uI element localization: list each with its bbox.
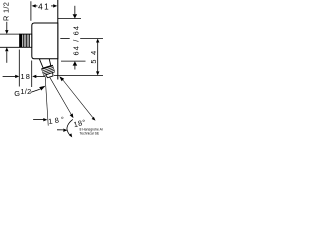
svg-text:64 / 64: 64 / 64 <box>71 25 80 56</box>
G 1/2 leader arrow <box>31 89 40 92</box>
dimension 41 extension line <box>30 1 32 21</box>
dimension 41 right arrow <box>53 4 57 7</box>
outlet neck cone <box>39 56 51 68</box>
svg-text:G: G <box>14 89 20 98</box>
dimension 41 left arrow <box>32 4 36 7</box>
angle pointer arrow at line A <box>33 119 44 121</box>
R 1/2 extension line top <box>0 33 20 35</box>
dimension 18 left arrow <box>3 75 16 77</box>
extension line mid right <box>61 60 86 62</box>
dimension 18 extension line left <box>18 50 20 87</box>
swing arc with bottom arrowhead <box>67 119 73 136</box>
svg-text:Technical SE: Technical SE <box>80 131 100 135</box>
svg-text:18: 18 <box>20 72 31 81</box>
64/64 arrow top <box>74 6 76 15</box>
nipple black cap <box>20 34 23 47</box>
svg-text:R 1/2: R 1/2 <box>2 2 11 21</box>
64/64 arrow bottom <box>73 61 78 65</box>
svg-text:1/2: 1/2 <box>20 87 31 96</box>
hose axis line A <box>45 77 48 126</box>
swing line C upper arrowhead at wall corner <box>59 76 64 81</box>
angle pointer arrow at swing arc <box>57 129 63 131</box>
body escutcheon <box>32 23 58 59</box>
svg-text:54: 54 <box>89 46 98 63</box>
64/64 extension line top <box>58 18 81 20</box>
R 1/2 extension line bottom <box>0 46 20 48</box>
nipple knurl hatch <box>24 34 30 47</box>
outlet elbow (rotated hose connector below body) <box>38 56 55 79</box>
R 1/2 arrow up <box>6 51 8 63</box>
wall line <box>57 0 59 80</box>
R 1/2 arrow down <box>6 22 8 31</box>
svg-text:41: 41 <box>38 2 50 11</box>
dimension 18 right arrow <box>32 75 36 78</box>
54 extension line bottom <box>54 75 103 77</box>
outlet knurled nut <box>41 65 54 75</box>
swing line C with lower arrow <box>63 80 94 119</box>
54 extension line top <box>60 38 69 40</box>
swing line B with arrow <box>49 77 71 115</box>
dimension 18 extension line right <box>31 61 33 88</box>
nipple outline <box>20 34 32 47</box>
54 dim line with arrows <box>96 39 99 43</box>
outlet tip <box>46 73 54 78</box>
